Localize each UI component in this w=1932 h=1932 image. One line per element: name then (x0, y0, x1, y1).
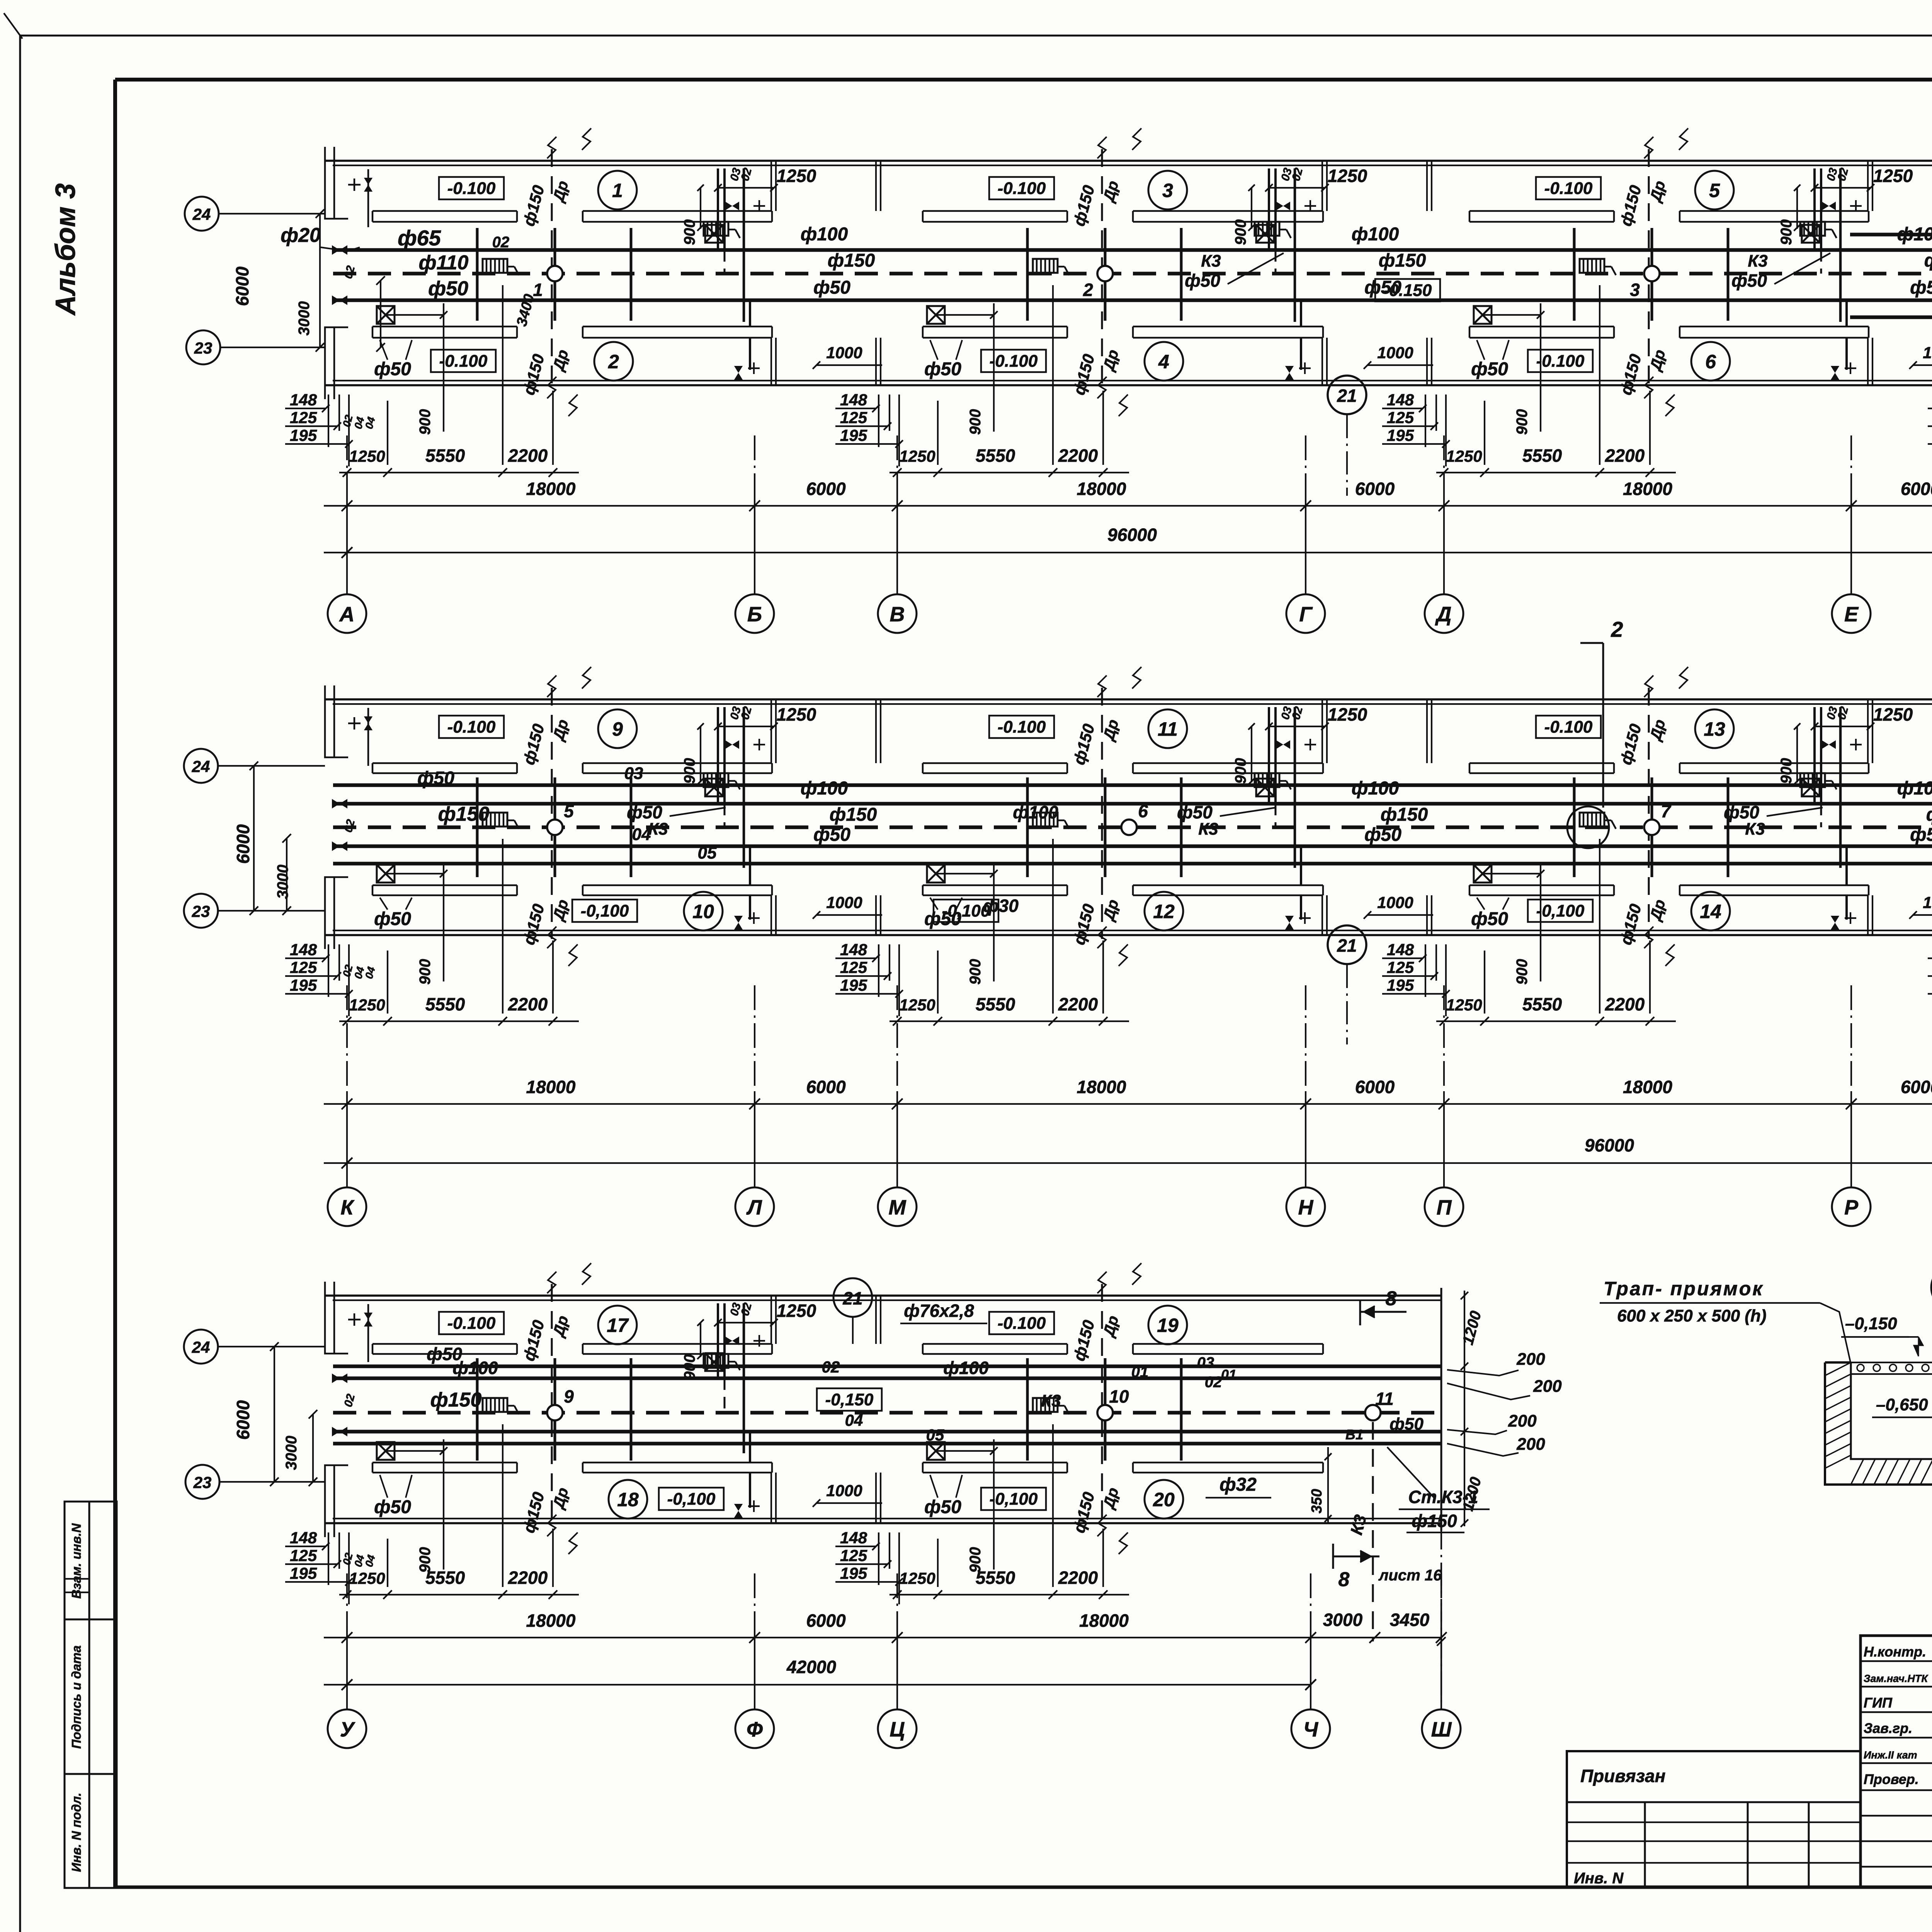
elevation box -0.100 bottom bay 2 (431, 350, 496, 372)
drain trap at cluster x=3379 (1255, 222, 1279, 236)
strip1 greenhouse top wall (325, 160, 1932, 162)
svg-text:ф100: ф100 (1897, 224, 1932, 245)
node 1 on K3 (547, 266, 563, 281)
svg-text:ГИП: ГИП (1864, 1695, 1893, 1711)
detail 2 big circle on drain (1567, 806, 1609, 848)
riser pipes at cluster x=1953 (717, 1303, 719, 1378)
svg-text:2: 2 (1083, 280, 1093, 300)
svg-text:ф100: ф100 (1352, 778, 1399, 799)
node 7 on K3 (1644, 820, 1660, 835)
svg-text:148: 148 (290, 940, 317, 959)
bay number circle 13 (1695, 709, 1734, 748)
vertical line to dim bay 1 (552, 391, 554, 465)
svg-text:1250: 1250 (899, 1569, 935, 1587)
svg-text:6000: 6000 (1355, 479, 1395, 499)
elevation box -0.100 top bay 1 (439, 177, 504, 199)
svg-text:900: 900 (1778, 758, 1795, 784)
valve at cluster x=1953 (725, 202, 739, 210)
dim row 1250/5550/2200 bay 5 (1436, 472, 1676, 473)
strip1 upper rail 4347-4836 (1680, 210, 1869, 212)
strip3 upper rail 2388-2762 (923, 1343, 1067, 1345)
svg-text:ф150: ф150 (1412, 1511, 1457, 1531)
dim row 1250/5550/2200 bay 19 (889, 1594, 1129, 1595)
svg-text:ф50: ф50 (813, 277, 850, 298)
svg-text:23: 23 (194, 339, 213, 357)
svg-text:200: 200 (1516, 1435, 1545, 1454)
strip3 riser column x=2860 (1104, 1358, 1107, 1461)
svg-text:-0.100: -0.100 (1536, 352, 1585, 371)
strip3 left vertical dim 6000 (274, 1347, 275, 1482)
vertical line to dim bay 17 (552, 1529, 554, 1587)
strip1 riser column x=1436 (554, 228, 556, 321)
svg-text:1250: 1250 (777, 704, 816, 724)
svg-text:ф150: ф150 (1379, 250, 1426, 271)
svg-text:11: 11 (1375, 1389, 1394, 1409)
drain trap symbol bay 19 (1033, 1398, 1058, 1412)
svg-text:К3: К3 (1201, 252, 1221, 270)
valve at cluster x=1953 (725, 1337, 739, 1345)
grate circles (1857, 1364, 1932, 1371)
drainage riser Dr dashed line bay 13 (1648, 688, 1650, 939)
svg-text:20: 20 (1153, 1489, 1175, 1510)
strip2 riser column x=4472 (1727, 777, 1730, 877)
elevation box -0.100 top bay 13 (1536, 716, 1601, 738)
svg-text:96000: 96000 (1585, 1135, 1634, 1155)
1200 dims right end strip3 (1464, 1291, 1465, 1526)
riser pipes at cluster x=4791 (1813, 707, 1816, 804)
axis П circle (1425, 1187, 1463, 1226)
svg-text:лист 16: лист 16 (1378, 1567, 1442, 1584)
bay number circle 9 (598, 709, 637, 748)
svg-text:6000: 6000 (806, 479, 846, 499)
svg-text:23: 23 (192, 902, 210, 920)
section mark 8 top strip3 (1360, 1311, 1406, 1313)
svg-text:148: 148 (1387, 391, 1414, 409)
vertical line to dim bay 9 (552, 940, 554, 1014)
svg-text:А: А (339, 603, 355, 626)
drainage riser Dr dashed line bay 19 (1101, 1284, 1103, 1527)
svg-text:1250: 1250 (1328, 166, 1367, 186)
strip2 left vertical dim 3000 (286, 838, 287, 911)
svg-text:ф50: ф50 (627, 802, 662, 822)
drain trap symbol bay 17 (483, 1398, 507, 1412)
axis Ш circle (1422, 1709, 1461, 1748)
strip1 left pipe valves (332, 245, 347, 255)
svg-text:Взам. инв.N: Взам. инв.N (69, 1523, 83, 1599)
svg-text:5: 5 (1709, 180, 1720, 201)
svg-text:02: 02 (822, 1358, 840, 1376)
strip1 dim row line 18000/6000 (324, 505, 1932, 507)
STRIP 3 (axes У-Ш) (184, 1255, 1932, 1748)
dashed riser to K3 at cluster x=3379 (1275, 250, 1277, 274)
node 9 on K3 (547, 1405, 563, 1420)
svg-text:2200: 2200 (1605, 994, 1645, 1014)
bay number circle 18 (609, 1480, 647, 1519)
svg-text:ф100: ф100 (1013, 802, 1058, 822)
900 dim rotated at cluster x=1953 (700, 188, 701, 229)
svg-text:Привязан: Привязан (1580, 1766, 1665, 1786)
svg-text:Инв. N подл.: Инв. N подл. (69, 1793, 83, 1872)
strip2 riser column x=2860 (1104, 777, 1107, 877)
strip1 upper rail 2932-3424 (1133, 210, 1323, 212)
svg-text:18000: 18000 (1077, 479, 1126, 499)
svg-text:2: 2 (608, 351, 619, 372)
axis 23 circle strip3 (185, 1465, 219, 1499)
svg-text:-0.100: -0.100 (990, 352, 1038, 371)
svg-text:125: 125 (290, 958, 317, 976)
strip2 pipe line 05 (333, 862, 1932, 866)
svg-text:ф50: ф50 (924, 909, 961, 929)
strip3 dim row line total (324, 1684, 1311, 1685)
svg-text:900: 900 (417, 959, 434, 985)
svg-text:1250: 1250 (1873, 704, 1913, 724)
svg-text:1000: 1000 (1923, 344, 1932, 362)
strip1 lower rail 2932-3424 (1133, 326, 1323, 328)
strip2 lower rail 964-1338 (372, 884, 517, 886)
drain trap symbol bay 5 (1580, 259, 1604, 273)
svg-text:ф50: ф50 (1910, 277, 1932, 298)
strip1 lower rail 3803-4177 (1469, 326, 1614, 328)
strip2 dim row line total (324, 1162, 1932, 1164)
svg-text:Инж.II кат: Инж.II кат (1864, 1749, 1917, 1761)
svg-text:02: 02 (1205, 1374, 1222, 1391)
strip2 top wall valve (348, 723, 361, 724)
partition wall at axis cluster x=1953 (770, 1296, 772, 1344)
svg-text:Н: Н (1298, 1196, 1314, 1219)
svg-text:1000: 1000 (1377, 344, 1413, 362)
svg-text:ф150: ф150 (1381, 804, 1428, 825)
svg-text:42000: 42000 (786, 1657, 836, 1677)
svg-text:Н.контр.: Н.контр. (1864, 1644, 1926, 1660)
axis Е circle (1832, 594, 1871, 633)
drain trap at cluster x=3379 (1255, 773, 1279, 787)
svg-text:195: 195 (840, 976, 867, 994)
axis 21 circle strip3 (833, 1278, 872, 1317)
bay number circle 12 (1145, 892, 1183, 930)
riser pipes at cluster x=3379 (1268, 707, 1270, 804)
svg-text:ф100: ф100 (801, 224, 848, 245)
900 dim bottom bay 20 (993, 1439, 995, 1570)
svg-text:6000: 6000 (232, 266, 252, 306)
title block signature table (1861, 1636, 1932, 1887)
svg-text:5550: 5550 (425, 1568, 465, 1588)
svg-text:23: 23 (193, 1473, 212, 1492)
dim row 1250/5550/2200 bay 1 (339, 472, 579, 473)
axis Ц circle (878, 1709, 917, 1748)
drain trap symbol bay 9 (483, 813, 507, 827)
strip3 greenhouse bottom wall (325, 1522, 1441, 1524)
strip2 pipe line 04 (333, 844, 1932, 848)
strip2 lower rail 3803-4177 (1469, 884, 1614, 886)
elevation box -0.100 top bay 19 (989, 1312, 1054, 1334)
svg-text:7: 7 (1661, 801, 1672, 821)
svg-text:Е: Е (1844, 603, 1859, 626)
svg-text:ф20: ф20 (281, 224, 321, 247)
drainage riser Dr dashed line bay 3 (1101, 149, 1103, 389)
strip3 riser column x=1235 (476, 1358, 479, 1461)
riser pipes at cluster x=1953 (717, 707, 719, 804)
svg-text:ф100: ф100 (801, 778, 848, 799)
elevation box -0.100 top bay 3 (989, 177, 1054, 199)
svg-text:1000: 1000 (1377, 893, 1413, 912)
svg-text:Инв. N: Инв. N (1574, 1870, 1624, 1887)
strip1 pipe line 04 (333, 298, 1932, 302)
svg-text:195: 195 (290, 1564, 317, 1582)
svg-text:10: 10 (692, 901, 714, 922)
svg-text:У: У (340, 1718, 355, 1741)
axis Ч circle (1291, 1709, 1330, 1748)
strip2 left pipe valves (332, 799, 347, 809)
elevation box -0.150 strip3 (817, 1388, 882, 1411)
svg-text:Ф: Ф (747, 1718, 763, 1741)
svg-text:6000: 6000 (1901, 479, 1932, 499)
svg-text:148: 148 (1387, 940, 1414, 959)
svg-text:Провер.: Провер. (1864, 1771, 1919, 1787)
node 11 branch (1365, 1405, 1381, 1420)
svg-text:К3: К3 (1748, 252, 1768, 270)
strip2 upper rail 4347-4836 (1680, 762, 1869, 764)
900 dim bottom bay 4 (993, 303, 995, 432)
axis Н circle (1286, 1187, 1325, 1226)
valve at cluster x=3379 (1276, 202, 1290, 210)
basin outline hatched (1825, 1362, 1932, 1485)
svg-text:17: 17 (607, 1315, 629, 1336)
K3 branch dashed vertical (1372, 1422, 1374, 1641)
svg-text:ф150: ф150 (830, 804, 877, 825)
elevation box -0.100 bottom bay 20 (981, 1488, 1046, 1510)
svg-text:2200: 2200 (508, 446, 548, 466)
svg-text:04: 04 (845, 1411, 863, 1429)
strip1 riser column x=4472 (1727, 228, 1730, 321)
svg-text:1000: 1000 (826, 1481, 862, 1500)
svg-text:900: 900 (1778, 219, 1795, 245)
strip1 upper rail 3803-4177 (1469, 210, 1614, 212)
drain trap at cluster x=4791 (1800, 773, 1825, 787)
axis 21 circle (1328, 925, 1366, 964)
elevation box -0.100 bottom bay 4 (981, 350, 1046, 372)
svg-text:5550: 5550 (1522, 446, 1562, 466)
riser pipes at cluster x=3379 (1268, 168, 1270, 250)
svg-text:195: 195 (290, 976, 317, 994)
strip2 lower rail 2932-3424 (1133, 884, 1323, 886)
svg-text:01: 01 (1131, 1364, 1149, 1381)
axis Г circle (1286, 594, 1325, 633)
strip1 riser column x=3057 (1180, 228, 1183, 321)
svg-text:-0.100: -0.100 (1544, 179, 1593, 198)
gate valve squareX bottom bay 20 (927, 1442, 945, 1460)
drain trap symbol bay 1 (483, 259, 507, 273)
svg-text:-0.100: -0.100 (998, 179, 1046, 198)
svg-text:ф50: ф50 (1471, 359, 1508, 379)
strip3 riser column x=3057 (1180, 1358, 1183, 1461)
svg-text:-0.100: -0.100 (447, 1314, 496, 1333)
svg-text:Альбом 3: Альбом 3 (50, 183, 81, 316)
svg-text:ф50: ф50 (1364, 825, 1401, 845)
svg-text:5550: 5550 (976, 1568, 1015, 1588)
strip1 riser column x=4275 (1651, 228, 1653, 321)
svg-text:ф50: ф50 (417, 768, 454, 789)
strip3 lower rail 2388-2762 (923, 1462, 1067, 1464)
strip1 pipe line K3 (333, 272, 1932, 276)
svg-text:18000: 18000 (1623, 1077, 1672, 1097)
svg-text:ф150: ф150 (438, 803, 490, 825)
dashed riser to K3 at cluster x=1953 (724, 1378, 726, 1413)
svg-text:195: 195 (840, 1564, 867, 1582)
svg-text:900: 900 (681, 758, 698, 784)
svg-text:9: 9 (564, 1386, 574, 1406)
svg-text:18000: 18000 (526, 1611, 576, 1631)
strip1 lower rail 4347-4836 (1680, 326, 1869, 328)
strip2 riser column x=4275 (1651, 777, 1653, 877)
strip2 riser column x=4074 (1573, 777, 1576, 877)
gate valve squareX bottom bay 6 (1474, 306, 1492, 324)
elevation box -0.100 top bay 17 (439, 1312, 504, 1334)
strip2 riser column x=1633 (630, 777, 633, 877)
squareX valve at cluster x=1953 (705, 1353, 723, 1371)
left stamp column box (65, 1502, 117, 1888)
axis 24 circle strip3 (184, 1330, 218, 1364)
svg-text:ф50: ф50 (924, 1497, 961, 1517)
bay number circle 20 (1145, 1480, 1183, 1519)
inner frame (115, 78, 1932, 82)
axis А circle (328, 594, 366, 633)
svg-text:В1: В1 (1345, 1427, 1363, 1442)
svg-text:ф150: ф150 (1924, 250, 1932, 271)
elevation box -0.100 bottom bay 18 (659, 1488, 724, 1510)
strip2 left end wall (333, 685, 335, 757)
900 dim bottom bay 12 (993, 862, 995, 981)
svg-text:1250: 1250 (1446, 447, 1482, 465)
strip3 pipe line 05 (333, 1442, 1441, 1446)
bay number circle 3 (1148, 171, 1187, 209)
svg-text:9: 9 (612, 718, 623, 740)
bay number circle 11 (1148, 709, 1187, 748)
strip1 pipe line 05 (1850, 315, 1932, 319)
svg-text:ф50: ф50 (1389, 1415, 1423, 1434)
1250 dim at cluster x=1953 (718, 187, 774, 189)
900 dim rotated at cluster x=4791 (1796, 188, 1798, 229)
drainage riser Dr dashed line bay 11 (1101, 688, 1103, 939)
svg-text:ф110: ф110 (419, 252, 469, 274)
strip1 greenhouse bottom wall (325, 384, 1932, 386)
svg-text:К3: К3 (1745, 820, 1765, 838)
svg-text:Л: Л (746, 1196, 762, 1219)
svg-text:ф50: ф50 (1177, 802, 1213, 822)
gate valve squareX bottom bay 10 (377, 865, 395, 883)
strip3 upper rail 2932-3424 (1133, 1343, 1323, 1345)
1250 dim at cluster x=4791 (1815, 726, 1871, 727)
dashed riser to K3 at cluster x=4791 (1820, 804, 1822, 827)
900 dim rotated at cluster x=4791 (1796, 726, 1798, 782)
squareX valve at cluster x=3379 (1256, 225, 1274, 243)
svg-text:ф150: ф150 (1926, 804, 1932, 825)
bay number circle 6 (1691, 342, 1730, 381)
strip2 upper rail 2388-2762 (923, 762, 1067, 764)
svg-text:2200: 2200 (1058, 994, 1098, 1014)
svg-text:-0.100: -0.100 (447, 179, 496, 198)
strip1 riser column x=1235 (476, 228, 479, 321)
bottom riser at cluster x=1953 (749, 846, 751, 885)
strip3 riser column x=1436 (554, 1358, 556, 1461)
svg-text:125: 125 (1387, 958, 1414, 976)
strip1 pipe line 03 (1850, 233, 1932, 236)
svg-text:24: 24 (192, 205, 211, 223)
svg-text:К3: К3 (1198, 820, 1218, 838)
axis 21 circle (1328, 376, 1366, 414)
gate valve squareX bottom bay 14 (1474, 865, 1492, 883)
section flag 2 line (1602, 643, 1604, 808)
strip3 right end wall (1440, 1288, 1442, 1531)
svg-text:-0,100: -0,100 (990, 1490, 1038, 1509)
strip3 left vertical dim 3000 (312, 1414, 314, 1482)
strip2 pipe line 02 (333, 802, 1932, 806)
strip2 pipe line K3 (333, 825, 1932, 829)
gate valve squareX bottom bay 18 (377, 1442, 395, 1460)
strip2 lower rail 2388-2762 (923, 884, 1067, 886)
svg-text:1250: 1250 (777, 166, 816, 186)
svg-text:900: 900 (681, 1354, 698, 1380)
axis К circle (328, 1187, 366, 1226)
node 6 on K3 (1121, 820, 1137, 835)
drain trap symbol bay 3 (1033, 259, 1058, 273)
svg-text:900: 900 (1232, 219, 1249, 245)
bottom riser at cluster x=3379 (1300, 846, 1302, 885)
svg-text:Ч: Ч (1303, 1718, 1319, 1741)
svg-text:148: 148 (840, 391, 867, 409)
strip1 top wall valve (348, 184, 361, 186)
svg-text:ф32: ф32 (1219, 1475, 1257, 1495)
svg-text:1250: 1250 (349, 996, 385, 1014)
strip2 riser column x=2659 (1026, 777, 1029, 877)
svg-text:05: 05 (698, 844, 717, 862)
svg-text:ф50: ф50 (813, 825, 850, 845)
drain trap at cluster x=1953 (704, 1354, 728, 1368)
axis Ф circle (735, 1709, 774, 1748)
detail 2 circle callout (1931, 1264, 1932, 1311)
strip2 left vertical dim 6000 (253, 766, 255, 911)
svg-text:3450: 3450 (1390, 1610, 1430, 1630)
axis 24 circle strip2 (184, 749, 218, 783)
strip1 upper rail 1508-1998 (583, 210, 772, 212)
svg-text:24: 24 (192, 1338, 210, 1356)
axis Р circle (1832, 1187, 1871, 1226)
STRIP 2 (axes К-У) (184, 617, 1932, 1748)
svg-text:1000: 1000 (826, 344, 862, 362)
svg-text:148: 148 (290, 391, 317, 409)
strip3 upper rail 964-1338 (372, 1343, 517, 1345)
strip1 left vertical dim 6000 (319, 214, 321, 347)
svg-text:ф50: ф50 (1185, 270, 1220, 291)
svg-text:М: М (889, 1196, 906, 1219)
svg-text:900: 900 (967, 409, 984, 435)
svg-text:2200: 2200 (508, 994, 548, 1014)
900 dim rotated at cluster x=1953 (700, 726, 701, 782)
svg-text:125: 125 (840, 408, 867, 427)
squareX valve at cluster x=4791 (1802, 779, 1820, 796)
drain trap at cluster x=4791 (1800, 222, 1825, 236)
svg-text:–0,650: –0,650 (1876, 1395, 1928, 1414)
svg-text:6000: 6000 (806, 1611, 846, 1631)
svg-text:ф50: ф50 (1910, 825, 1932, 845)
strip3 riser column x=2659 (1026, 1358, 1029, 1461)
strip1 left end wall (333, 147, 335, 219)
svg-text:200: 200 (1508, 1412, 1537, 1430)
svg-text:В: В (890, 603, 905, 626)
svg-text:6000: 6000 (233, 824, 253, 864)
strip3 dim row line 18000/6000 (324, 1637, 1441, 1638)
1250 dim at cluster x=1953 (718, 1322, 774, 1323)
strip1 dim row line total (324, 552, 1932, 553)
